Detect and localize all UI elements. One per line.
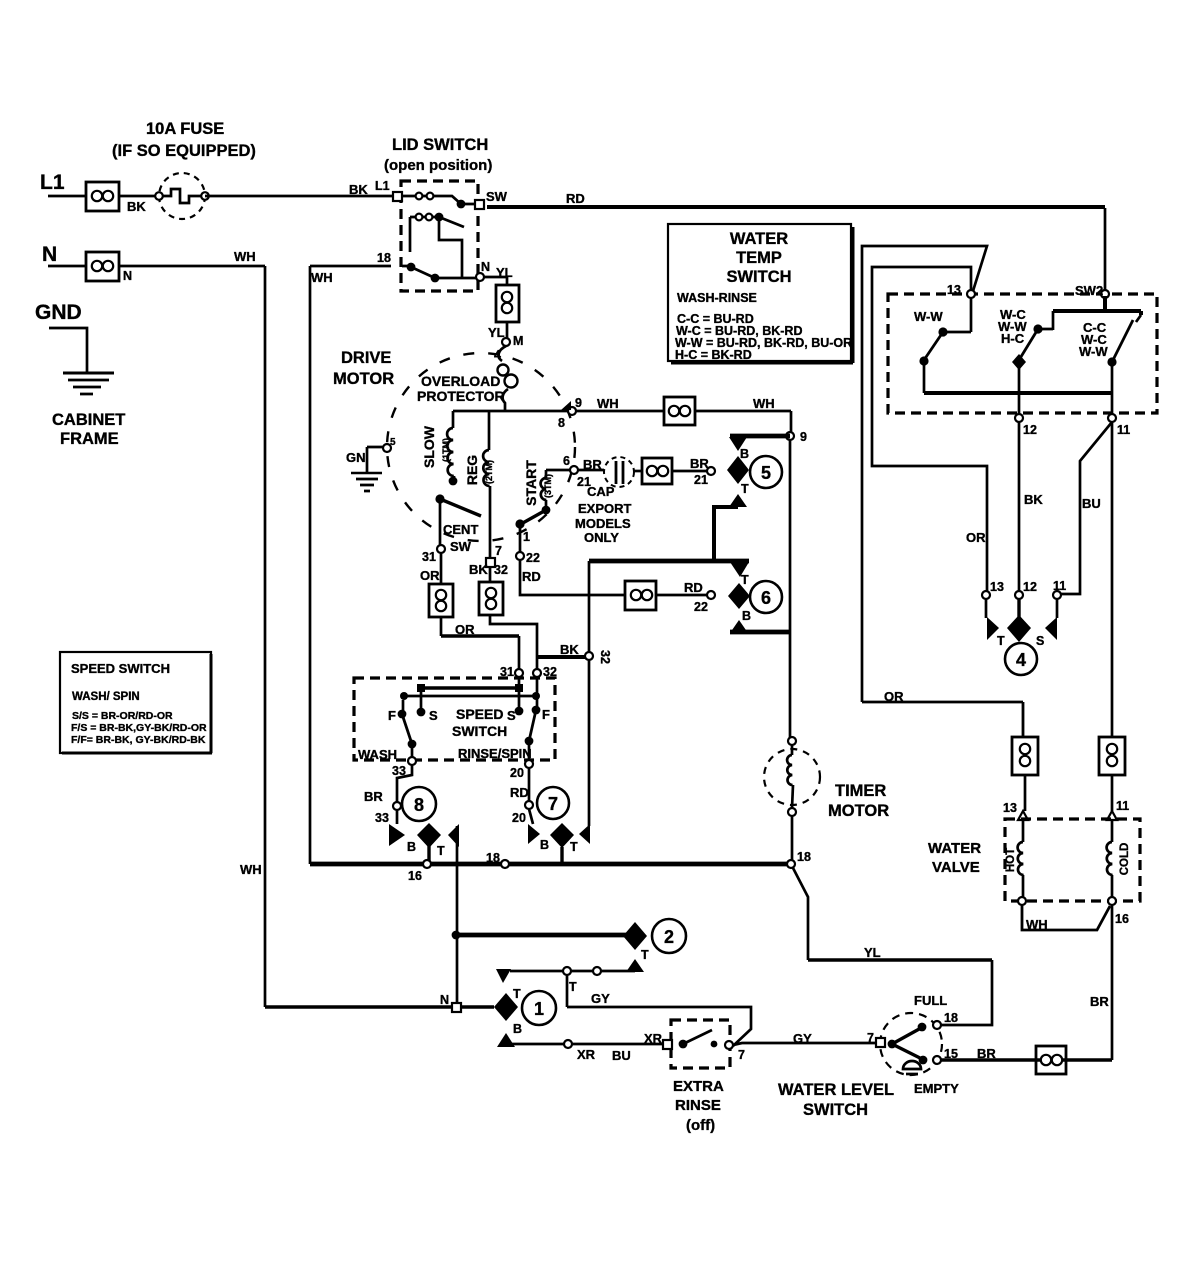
- wire SW2 bar: [1053, 296, 1141, 315]
- wts bottom bar: [924, 391, 1112, 395]
- svg-text:5: 5: [761, 463, 771, 483]
- terminal 12 timer: [1015, 591, 1023, 599]
- ground symbol cabinet frame: [63, 373, 114, 394]
- wire thick link to 6: [589, 559, 749, 564]
- timer contact 1 group: [494, 969, 556, 1047]
- svg-text:BK: BK: [1024, 492, 1043, 507]
- svg-text:2: 2: [664, 927, 674, 947]
- connector (WH plug): [664, 397, 695, 425]
- speed switch bar2: [400, 692, 540, 700]
- wire timer motor to bus: [791, 816, 794, 860]
- wire cent to 31: [439, 499, 442, 545]
- node N junction: [452, 1003, 461, 1012]
- svg-text:MODELS: MODELS: [575, 516, 631, 531]
- svg-text:B: B: [740, 447, 749, 461]
- svg-text:RINSE: RINSE: [675, 1097, 721, 1114]
- svg-text:WH: WH: [597, 396, 619, 411]
- svg-text:21: 21: [577, 475, 591, 489]
- wls common contact: [888, 1040, 897, 1049]
- svg-text:T: T: [513, 987, 521, 1001]
- terminal M: [502, 338, 510, 346]
- wire WH valve jog: [1022, 905, 1110, 930]
- svg-text:START: START: [523, 460, 539, 506]
- blade F right: [529, 710, 536, 741]
- terminal 7 extra rinse: [725, 1041, 733, 1049]
- contact F left: [402, 700, 405, 714]
- svg-text:ONLY: ONLY: [584, 530, 619, 545]
- svg-text:16: 16: [1115, 912, 1129, 926]
- terminal 13 wts: [967, 290, 975, 298]
- connector (BR plug bottom): [1036, 1046, 1066, 1074]
- svg-text:BU: BU: [1082, 496, 1101, 511]
- svg-text:BU: BU: [612, 1048, 631, 1063]
- timer contact 6 group: [728, 562, 782, 633]
- svg-text:GN: GN: [346, 450, 366, 465]
- wire contact7 to bus: [560, 847, 563, 864]
- svg-text:HOT: HOT: [1005, 848, 1017, 872]
- wire WH to connector: [576, 410, 664, 413]
- svg-text:WH: WH: [311, 270, 333, 285]
- svg-text:FRAME: FRAME: [60, 430, 119, 448]
- centrifugal switch CENT SW: [435, 494, 444, 503]
- svg-text:T: T: [641, 948, 649, 962]
- wire RD to terminal 22 right: [656, 594, 707, 597]
- svg-text:SW2: SW2: [1075, 283, 1103, 298]
- svg-text:EXTRA: EXTRA: [673, 1078, 724, 1095]
- svg-text:T: T: [569, 980, 577, 994]
- svg-text:BK: BK: [469, 562, 488, 577]
- svg-text:32: 32: [494, 563, 508, 577]
- wire RD top run: [487, 205, 1105, 209]
- extra rinse switch dashed box: [671, 1020, 730, 1068]
- wire GY run: [567, 1007, 751, 1046]
- svg-text:SWITCH: SWITCH: [726, 268, 791, 286]
- wire vertical junctions: [456, 935, 459, 1003]
- wire A wts13 to water valve: [862, 246, 987, 702]
- svg-text:BK: BK: [127, 199, 146, 214]
- wire lid row1: [402, 196, 475, 204]
- wire RD down to SW2: [1104, 208, 1107, 290]
- svg-text:T: T: [741, 482, 749, 496]
- svg-text:BK: BK: [560, 642, 579, 657]
- svg-text:31: 31: [500, 665, 514, 679]
- svg-text:L1: L1: [40, 171, 65, 194]
- wire BK connector to 32: [490, 615, 537, 670]
- svg-text:TEMP: TEMP: [736, 249, 782, 267]
- svg-text:12: 12: [1023, 423, 1037, 437]
- terminal 13 valve: [1018, 811, 1028, 820]
- wire to terminal 33: [411, 744, 414, 757]
- svg-text:GND: GND: [35, 301, 82, 324]
- svg-text:6: 6: [563, 454, 570, 468]
- svg-text:S/S = BR-OR/RD-OR: S/S = BR-OR/RD-OR: [72, 710, 173, 722]
- svg-text:18: 18: [377, 251, 391, 265]
- hot solenoid coil: [1018, 820, 1024, 897]
- wire RD from 22 to contact 6: [520, 560, 625, 595]
- svg-text:SPEED SWITCH: SPEED SWITCH: [71, 661, 170, 676]
- wire to water valve 13: [1024, 775, 1027, 811]
- svg-text:FULL: FULL: [914, 993, 947, 1008]
- connector (BK plug): [479, 582, 503, 615]
- wire XR run: [511, 1043, 564, 1046]
- wire lid row2 contacts: [410, 217, 462, 277]
- svg-text:7: 7: [738, 1048, 745, 1062]
- cold solenoid coil: [1107, 820, 1113, 897]
- wire left vertical N run: [264, 266, 267, 1007]
- svg-text:BR: BR: [1090, 994, 1109, 1009]
- contact F right: [532, 706, 541, 715]
- wire connector to fuse: [119, 195, 156, 198]
- svg-text:7: 7: [548, 794, 558, 814]
- svg-text:18: 18: [797, 850, 811, 864]
- contact S left: [420, 692, 423, 712]
- node 18 on bus: [501, 860, 509, 868]
- wire vertical link contact7: [588, 561, 591, 826]
- wire T to GY: [566, 975, 569, 1007]
- terminal 11 timer: [1053, 591, 1061, 599]
- svg-text:31: 31: [422, 550, 436, 564]
- wire contact6 bottom to timer vertical: [730, 630, 791, 635]
- wire to timer contact 5: [672, 470, 707, 473]
- svg-text:9: 9: [800, 430, 807, 444]
- svg-text:(open position): (open position): [384, 157, 492, 174]
- svg-text:7: 7: [867, 1031, 874, 1045]
- connector (RD plug): [625, 581, 656, 610]
- timer contact 8 group: [389, 787, 459, 858]
- svg-text:8: 8: [414, 795, 424, 815]
- drive motor M1 dashed outline: [387, 353, 575, 541]
- svg-text:OR: OR: [420, 568, 440, 583]
- svg-text:11: 11: [1116, 799, 1129, 813]
- timer motor TM: [764, 737, 820, 816]
- wire N bottom run: [265, 1005, 494, 1008]
- wire YL to motor M: [506, 322, 509, 338]
- svg-text:RINSE/SPIN: RINSE/SPIN: [458, 746, 532, 761]
- svg-text:SW: SW: [450, 539, 472, 554]
- wire BK branch to junction: [537, 655, 585, 659]
- svg-text:6: 6: [761, 588, 771, 608]
- svg-text:XR: XR: [644, 1031, 663, 1046]
- svg-text:SWITCH: SWITCH: [803, 1101, 868, 1119]
- svg-text:F: F: [388, 708, 396, 723]
- slow winding: [447, 411, 457, 485]
- svg-text:(2TM): (2TM): [484, 460, 494, 484]
- terminal 33 lower: [393, 802, 401, 810]
- timer contact 5 group: [727, 436, 790, 507]
- wire B timer13 to wts13: [872, 267, 987, 591]
- svg-text:XR: XR: [577, 1047, 596, 1062]
- svg-text:WH: WH: [240, 862, 262, 877]
- svg-text:RD: RD: [684, 580, 703, 595]
- svg-text:EXPORT: EXPORT: [578, 501, 632, 516]
- svg-text:WH: WH: [1026, 917, 1048, 932]
- svg-text:YL: YL: [488, 325, 505, 340]
- svg-text:11: 11: [1117, 423, 1130, 437]
- svg-text:12: 12: [1023, 580, 1037, 594]
- terminal 15: [933, 1056, 941, 1064]
- svg-text:20: 20: [510, 766, 524, 780]
- svg-text:WATER: WATER: [730, 230, 788, 248]
- wire OR to speed switch 31: [440, 617, 443, 636]
- terminal 11 valve: [1107, 811, 1117, 820]
- terminal 18 FULL: [933, 1021, 941, 1029]
- svg-text:H-C: H-C: [1001, 331, 1025, 346]
- wire WH to right vertical: [695, 411, 791, 432]
- terminal 6 and BR wire to cap: [546, 469, 570, 472]
- svg-text:CABINET: CABINET: [52, 411, 125, 429]
- connector (BR plug): [642, 458, 672, 484]
- wire WH to left vertical: [119, 265, 265, 268]
- svg-text:T: T: [570, 840, 578, 854]
- reg winding: [483, 411, 495, 567]
- svg-text:WATER: WATER: [928, 840, 981, 857]
- bus WH main: [310, 862, 791, 867]
- svg-text:7: 7: [495, 544, 502, 558]
- speed switch dashed box: [354, 678, 555, 760]
- svg-text:RD: RD: [522, 569, 541, 584]
- svg-text:SW: SW: [486, 189, 508, 204]
- wire BR down right: [1111, 905, 1114, 1060]
- svg-text:T: T: [437, 844, 445, 858]
- timer contact 2 group: [623, 919, 686, 972]
- svg-text:B: B: [742, 609, 751, 623]
- svg-text:SWITCH: SWITCH: [452, 723, 507, 739]
- svg-text:8: 8: [558, 416, 565, 430]
- wire motor top horizontal: [453, 410, 568, 413]
- terminal 20 lower: [525, 801, 533, 809]
- terminal 31 speed switch: [515, 669, 523, 677]
- lid switch S1 dashed box: [401, 181, 478, 291]
- svg-text:32: 32: [543, 665, 557, 679]
- terminal 32 speed switch: [533, 669, 541, 677]
- blade to FULL: [892, 1028, 921, 1044]
- timer contact 7 group: [528, 787, 590, 854]
- svg-text:T: T: [741, 573, 749, 587]
- svg-text:RD: RD: [510, 785, 529, 800]
- svg-text:CAP: CAP: [587, 484, 615, 499]
- svg-text:S: S: [429, 708, 438, 723]
- speed switch legend box: [60, 652, 212, 753]
- svg-text:13: 13: [1003, 801, 1017, 815]
- connector (YL plug): [496, 285, 519, 322]
- svg-text:21: 21: [694, 473, 708, 487]
- svg-text:SLOW: SLOW: [421, 425, 437, 468]
- blade to EMPTY: [892, 1044, 922, 1059]
- terminal XR: [663, 1040, 672, 1049]
- svg-text:H-C = BK-RD: H-C = BK-RD: [675, 348, 752, 362]
- connector (BU plug right): [1099, 737, 1125, 775]
- water level switch dashed circle: [880, 1013, 942, 1075]
- terminal SW2: [1101, 290, 1109, 298]
- svg-text:WH: WH: [234, 249, 256, 264]
- wire OR horizontal to valve: [862, 702, 1023, 737]
- svg-text:GY: GY: [793, 1031, 812, 1046]
- node 18 junction: [787, 860, 795, 868]
- svg-text:DRIVE: DRIVE: [341, 349, 391, 367]
- svg-text:EMPTY: EMPTY: [914, 1081, 959, 1096]
- empty contact symbol: [903, 1061, 921, 1074]
- wire lid row3 contact: [402, 266, 477, 278]
- wire to contact 2: [456, 933, 627, 938]
- svg-text:(3TM): (3TM): [543, 474, 553, 498]
- svg-text:MOTOR: MOTOR: [828, 802, 889, 820]
- terminal 9: [568, 407, 576, 415]
- svg-text:LID SWITCH: LID SWITCH: [392, 136, 488, 154]
- terminal 12 wts: [1015, 414, 1023, 422]
- contact S right: [515, 707, 524, 716]
- svg-text:18: 18: [486, 851, 500, 865]
- wire N terminal to YL connector: [484, 277, 507, 285]
- blade F left: [402, 714, 412, 744]
- svg-text:9: 9: [575, 396, 582, 410]
- svg-text:20: 20: [512, 811, 526, 825]
- svg-text:VALVE: VALVE: [932, 859, 980, 876]
- capacitor CAP dashed: [604, 457, 634, 487]
- wire GY to water level switch: [733, 1043, 876, 1045]
- svg-text:PROTECTOR: PROTECTOR: [417, 388, 505, 404]
- svg-text:B: B: [513, 1022, 522, 1036]
- svg-text:1: 1: [523, 530, 530, 544]
- svg-text:1: 1: [534, 999, 544, 1019]
- wire 31 to OR connector: [440, 553, 443, 584]
- svg-text:N: N: [123, 269, 132, 283]
- wire YL run: [793, 868, 808, 960]
- wire contact5 to contact6: [714, 507, 738, 561]
- svg-text:22: 22: [526, 551, 540, 565]
- svg-text:WATER LEVEL: WATER LEVEL: [778, 1081, 894, 1099]
- connector (OR plug right): [1012, 737, 1038, 775]
- svg-text:COLD: COLD: [1119, 843, 1131, 876]
- connector (L1 disconnect plug): [86, 182, 119, 211]
- svg-text:YL: YL: [864, 945, 881, 960]
- terminal N: [476, 273, 484, 281]
- svg-text:18: 18: [944, 1011, 958, 1025]
- wire T link: [510, 970, 635, 973]
- water valve dashed box: [1005, 819, 1140, 901]
- svg-text:32: 32: [598, 650, 612, 664]
- svg-text:F: F: [542, 707, 550, 722]
- svg-text:W-W: W-W: [914, 309, 943, 324]
- node 16 on bus: [423, 860, 431, 868]
- wire right vertical to valve 11: [1111, 422, 1114, 737]
- svg-text:GY: GY: [591, 991, 610, 1006]
- wire timer main vertical: [789, 440, 792, 741]
- svg-text:TIMER: TIMER: [835, 782, 886, 800]
- svg-text:OVERLOAD: OVERLOAD: [421, 373, 500, 389]
- node BK junction 32: [585, 652, 593, 660]
- svg-text:N: N: [481, 260, 490, 274]
- svg-text:16: 16: [408, 869, 422, 883]
- wire WH vertical to bus: [310, 266, 391, 864]
- svg-text:RD: RD: [566, 191, 585, 206]
- svg-text:11: 11: [1053, 579, 1066, 593]
- svg-text:B: B: [407, 840, 416, 854]
- fuse F1 10A: [155, 173, 209, 219]
- terminal 13 timer: [982, 591, 990, 599]
- svg-text:OR: OR: [966, 530, 986, 545]
- svg-text:13: 13: [990, 580, 1004, 594]
- wire 32 down: [536, 677, 539, 710]
- svg-text:N: N: [440, 993, 449, 1007]
- wire 31 down: [518, 677, 521, 711]
- svg-text:BR: BR: [690, 456, 709, 471]
- svg-text:WASH/ SPIN: WASH/ SPIN: [72, 691, 140, 703]
- svg-text:(1TM): (1TM): [441, 438, 451, 462]
- wire L1 to connector: [48, 195, 86, 198]
- svg-text:F/F= BR-BK, GY-BK/RD-BK: F/F= BR-BK, GY-BK/RD-BK: [71, 734, 206, 746]
- terminal valve bottom left: [1018, 897, 1026, 905]
- svg-text:(IF SO EQUIPPED): (IF SO EQUIPPED): [112, 142, 256, 160]
- svg-text:22: 22: [694, 600, 708, 614]
- wire start to 22: [519, 524, 522, 552]
- speed switch bar1: [417, 684, 523, 692]
- svg-text:OR: OR: [884, 689, 904, 704]
- terminal SW: [475, 200, 484, 209]
- water temp switch dashed box: [888, 294, 1157, 413]
- svg-text:T: T: [997, 634, 1005, 648]
- svg-text:L1: L1: [375, 179, 390, 193]
- wire cap to connector: [634, 470, 642, 473]
- start switch blade: [521, 510, 546, 524]
- svg-text:WASH-RINSE: WASH-RINSE: [677, 291, 757, 305]
- svg-text:F/S = BR-BK,GY-BK/RD-OR: F/S = BR-BK,GY-BK/RD-OR: [71, 722, 207, 734]
- svg-text:S: S: [1036, 634, 1044, 648]
- extra rinse contacts: [679, 1040, 688, 1049]
- svg-text:WH: WH: [753, 396, 775, 411]
- svg-text:4: 4: [1016, 650, 1026, 670]
- svg-text:OR: OR: [455, 622, 475, 637]
- svg-text:WASH: WASH: [358, 747, 397, 762]
- wire contact8 to bus: [427, 846, 430, 864]
- svg-text:CENT: CENT: [443, 522, 478, 537]
- terminal 16 valve: [1108, 897, 1116, 905]
- wire fuse to lid switch: [205, 195, 393, 198]
- svg-text:M: M: [513, 334, 523, 348]
- wire BK from reg to speed switch 32: [489, 566, 492, 582]
- connector (N disconnect plug): [86, 252, 119, 281]
- terminal 22: [516, 552, 524, 560]
- terminal L1: [393, 192, 402, 201]
- svg-text:BK: BK: [349, 182, 368, 197]
- svg-text:S: S: [507, 708, 516, 723]
- wire BR run: [941, 1058, 1112, 1061]
- wire to cabinet ground: [49, 328, 87, 372]
- svg-text:W-W: W-W: [1079, 344, 1108, 359]
- svg-text:REG: REG: [464, 455, 480, 485]
- wire BK mid vertical: [1018, 422, 1021, 591]
- wire BU from 11: [1061, 422, 1112, 594]
- overload protector coil: [498, 346, 518, 411]
- water temp switch legend box: [668, 224, 853, 363]
- svg-text:10A FUSE: 10A FUSE: [146, 120, 224, 138]
- svg-text:(off): (off): [686, 1117, 715, 1134]
- svg-text:BR: BR: [977, 1046, 996, 1061]
- terminal 7 wls: [876, 1038, 885, 1047]
- connector (OR plug): [429, 584, 453, 617]
- wire N to connector: [48, 265, 86, 268]
- terminal 9 right: [786, 432, 794, 440]
- svg-text:13: 13: [947, 283, 961, 297]
- wire to terminal 20: [528, 741, 531, 760]
- svg-text:SPEED: SPEED: [456, 706, 503, 722]
- svg-text:5: 5: [390, 437, 396, 448]
- terminal 11 wts: [1108, 414, 1116, 422]
- svg-text:MOTOR: MOTOR: [333, 370, 394, 388]
- ground symbol motor: [351, 473, 382, 491]
- svg-text:N: N: [42, 243, 57, 266]
- start winding: [541, 470, 551, 514]
- svg-text:BR: BR: [364, 789, 383, 804]
